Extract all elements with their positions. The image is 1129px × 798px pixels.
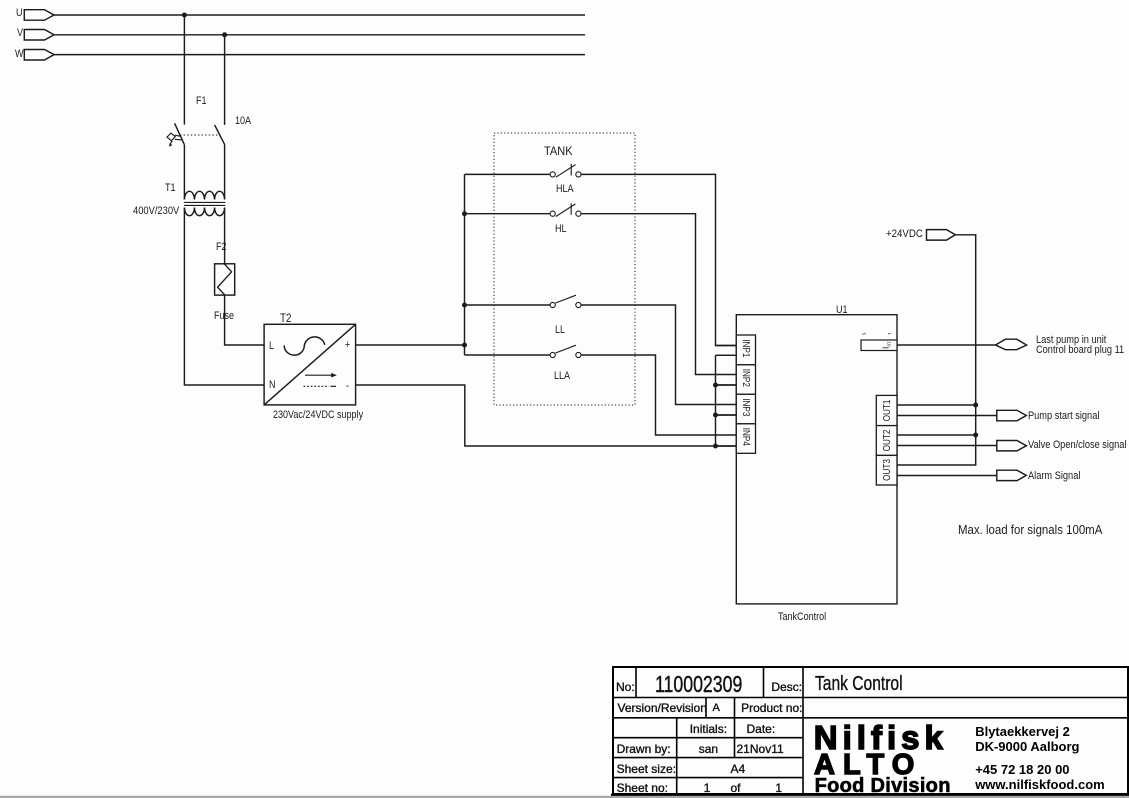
svg-text:INP2: INP2 bbox=[741, 369, 752, 387]
svg-text:OUT2: OUT2 bbox=[881, 430, 892, 452]
svg-text:OUT1: OUT1 bbox=[881, 400, 892, 422]
svg-text:INP1: INP1 bbox=[741, 339, 752, 357]
svg-text:OUT3: OUT3 bbox=[881, 459, 892, 481]
svg-text:INP4: INP4 bbox=[741, 428, 752, 446]
svg-text:10: 10 bbox=[887, 342, 892, 348]
svg-text:INP3: INP3 bbox=[741, 398, 752, 416]
